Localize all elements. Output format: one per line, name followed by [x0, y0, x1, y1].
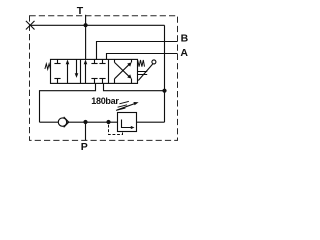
box1 up arrow: [66, 60, 70, 84]
wire port P stem: [85, 122, 87, 140]
wire bottom line to relief valve: [67, 121, 118, 123]
svg-text:180bar: 180bar: [91, 96, 119, 106]
valve position divider 2: [108, 59, 110, 83]
box2 blocked pair A: [99, 59, 105, 83]
wire pressure line left riser: [40, 83, 96, 122]
check valve seat: [64, 117, 69, 122]
spring right: [138, 60, 145, 67]
valve position divider 1: [80, 59, 82, 83]
wire bottom line left segment: [40, 121, 59, 123]
box1 blocked port pair: [54, 59, 60, 83]
node pilot tap junction: [106, 120, 110, 124]
box3 crossed arrows: [115, 59, 132, 83]
relief valve spring: [116, 101, 129, 110]
wire T line horizontal: [30, 24, 165, 26]
node T junction: [84, 23, 88, 27]
relief valve pilot line: [109, 125, 123, 135]
wire valve T-port return: [104, 83, 165, 90]
svg-text:A: A: [180, 47, 188, 59]
relief valve body: [118, 113, 137, 132]
node P junction: [83, 120, 87, 124]
wire tank return right vertical: [164, 25, 166, 122]
wire port A line: [107, 54, 178, 60]
wire relief valve outlet: [137, 121, 165, 123]
box2 blocked pair B: [91, 59, 97, 83]
svg-text:P: P: [81, 141, 88, 153]
spring left: [45, 64, 51, 69]
svg-text:B: B: [181, 33, 189, 45]
svg-text:T: T: [77, 5, 84, 17]
lever pivot bars: [138, 71, 148, 73]
box1 down arrow: [75, 59, 79, 78]
lever knob: [152, 60, 156, 64]
enclosure dashed boundary: [30, 16, 178, 141]
check valve ball: [58, 118, 66, 126]
node tank return junction: [162, 89, 166, 93]
wire T stem: [85, 15, 87, 60]
relief valve internal arrow: [122, 120, 135, 130]
relief valve adjustment arrow: [117, 102, 139, 110]
directional valve body outline: [51, 59, 138, 83]
wire port B line: [97, 42, 178, 60]
box2 up arrow (P to T open center): [84, 60, 88, 84]
plugged port X on boundary: [26, 21, 35, 30]
lever arm: [138, 64, 152, 81]
